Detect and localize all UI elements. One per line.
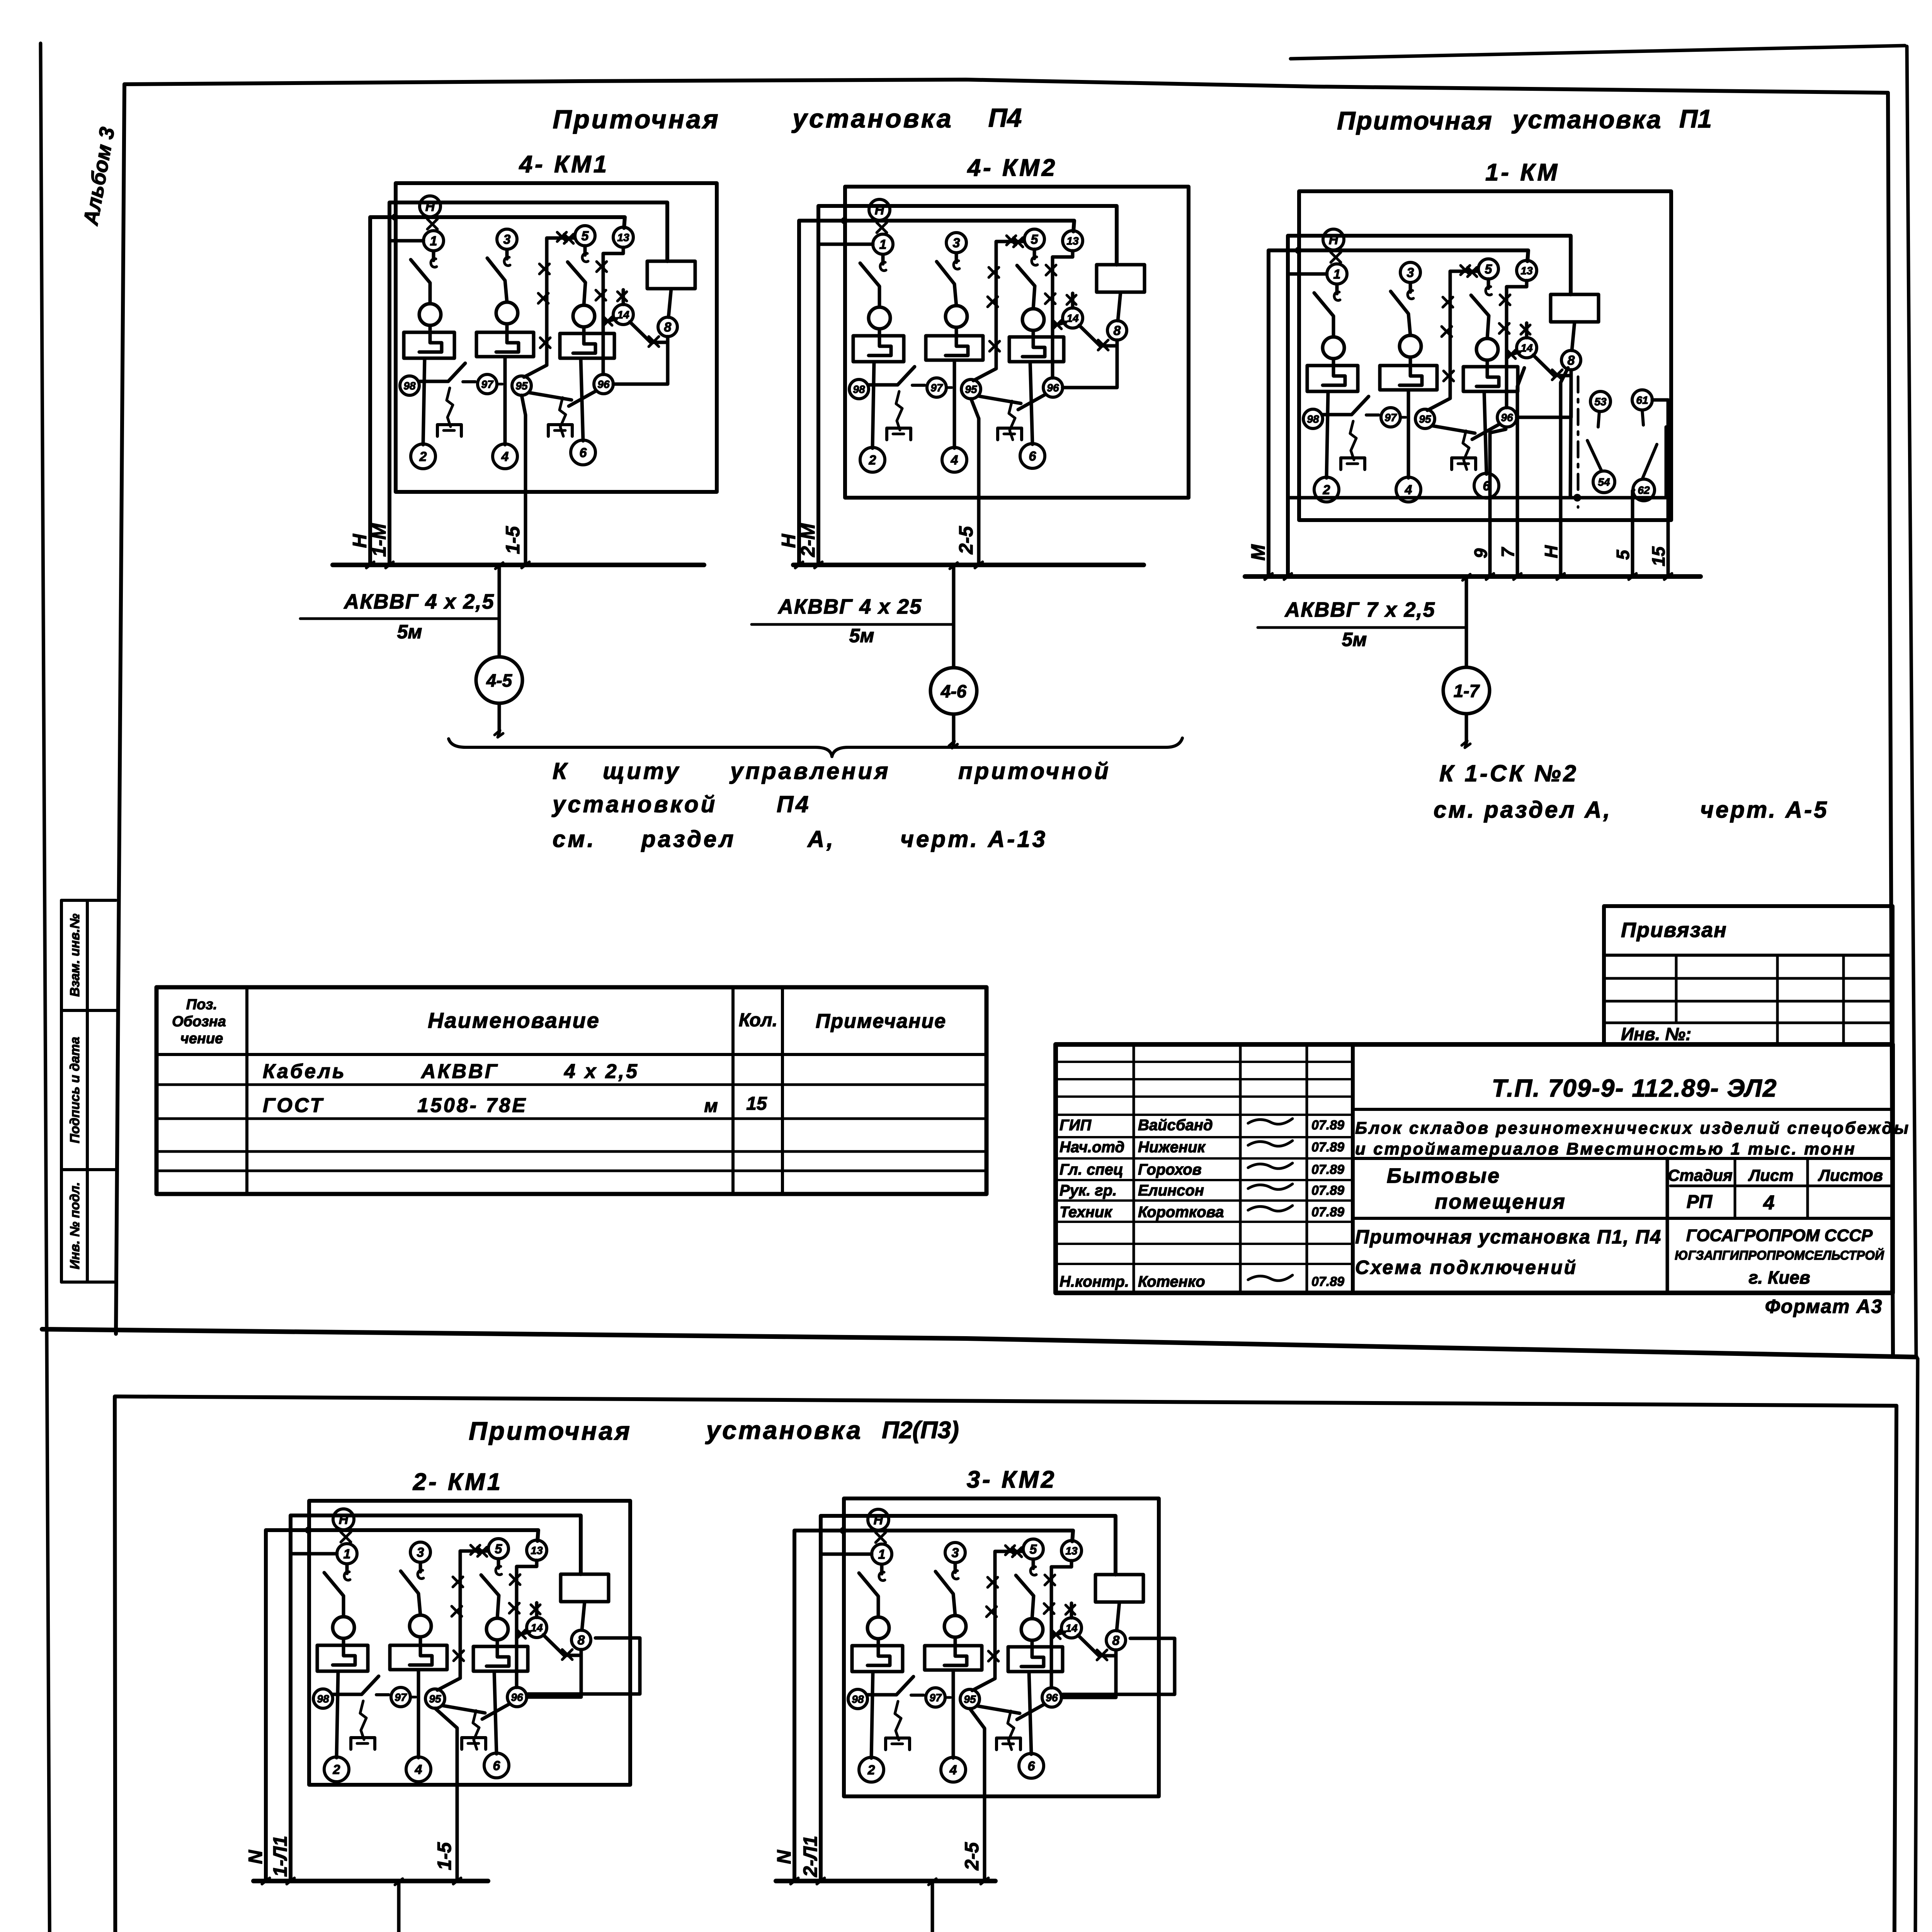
pole 2 wire to thermal 3-КМ2 xyxy=(954,1637,957,1646)
terminal H 1-КМ xyxy=(1323,229,1344,250)
svg-text:5м: 5м xyxy=(849,625,874,646)
svg-text:3: 3 xyxy=(953,236,960,250)
NC blade 98-97 4-КМ1 xyxy=(419,380,448,383)
terminal 97 4-КМ1 xyxy=(478,374,497,394)
pole 2 wire to bottom terminal 4-КМ2 xyxy=(953,360,956,448)
pole 1 contactor circle 2-КМ1 xyxy=(333,1617,354,1638)
junction dot 3-КМ2 xyxy=(840,1527,847,1534)
cross mark under H 3-КМ2 xyxy=(876,1532,886,1543)
1-КМ wire 15 to terminal 61 xyxy=(1652,400,1668,577)
1-КМ terminal 62 xyxy=(1633,479,1655,501)
svg-text:15: 15 xyxy=(746,1094,767,1114)
contactor block 3-КМ2 outline xyxy=(844,1498,1159,1796)
wire 5 branch 3-КМ2 xyxy=(972,1551,1023,1690)
terminal 1 3-КМ2 xyxy=(872,1544,892,1564)
svg-text:14: 14 xyxy=(1520,342,1533,354)
svg-text:Н: Н xyxy=(1541,545,1561,558)
NC blade 98-97 3-КМ2 xyxy=(867,1693,896,1697)
svg-text:4-5: 4-5 xyxy=(486,670,513,690)
svg-text:1: 1 xyxy=(878,1547,886,1562)
thermal trip symbol left 4-КМ2 xyxy=(896,391,902,430)
pole 3 contactor circle 4-КМ1 xyxy=(573,305,595,327)
pole 1 fixed contact 2-КМ1 xyxy=(345,1564,349,1573)
svg-text:Елинсон: Елинсон xyxy=(1138,1182,1204,1199)
svg-text:АКВВГ 4 х 25: АКВВГ 4 х 25 xyxy=(777,595,922,618)
svg-text:К 1-СК №2: К 1-СК №2 xyxy=(1439,760,1578,786)
sheet 1 frame top edge xyxy=(124,80,1888,93)
svg-text:Поз.: Поз. xyxy=(186,997,218,1013)
svg-text:черт. А-13: черт. А-13 xyxy=(900,826,1048,852)
svg-text:А,: А, xyxy=(807,826,835,852)
stub above 14 4-КМ2 xyxy=(1071,293,1075,308)
thermal relay heater 1 4-КМ1 xyxy=(404,332,454,358)
wire coil-feed loop 4-КМ1 xyxy=(389,202,667,565)
pole 3 blade 2-КМ1 xyxy=(481,1575,499,1618)
wire 5 branch 2-КМ1 xyxy=(437,1551,488,1690)
wire 8 to 96 4-КМ1 xyxy=(613,342,668,384)
svg-text:Вайсбанд: Вайсбанд xyxy=(1138,1117,1213,1134)
coil KM 4-КМ1 xyxy=(647,261,695,289)
1-КМ wire Н to terminal 8 xyxy=(1561,368,1568,577)
svg-text:98: 98 xyxy=(403,380,416,392)
svg-text:5: 5 xyxy=(1030,1542,1037,1557)
spec table sheet1 column lines xyxy=(245,987,248,1194)
brace to control panel П4 xyxy=(449,738,1182,757)
terminal H 2-КМ1 xyxy=(333,1509,354,1530)
terminal 96 2-КМ1 xyxy=(507,1687,527,1707)
svg-text:1: 1 xyxy=(344,1547,351,1561)
svg-text:щиту: щиту xyxy=(603,758,681,784)
svg-text:97: 97 xyxy=(930,382,943,394)
pole 1 wire to thermal 4-КМ1 xyxy=(429,325,432,332)
pole 2 blade 1-КМ xyxy=(1391,291,1410,335)
thermal relay heater 1 3-КМ2 xyxy=(852,1646,903,1672)
cross mark under H 2-КМ1 xyxy=(341,1532,351,1542)
svg-text:5: 5 xyxy=(1613,549,1633,560)
svg-text:ГОСТ: ГОСТ xyxy=(263,1094,324,1117)
terminal 5 3-КМ2 xyxy=(1023,1539,1043,1559)
blade 95 thermal 2-КМ1 xyxy=(442,1706,485,1713)
pole 1 blade 4-КМ2 xyxy=(860,263,879,307)
cross mark under H 4-КМ1 xyxy=(427,219,437,229)
terminal 95 4-КМ1 xyxy=(512,376,531,395)
pole 2 wire to bottom terminal 3-КМ2 xyxy=(952,1670,955,1758)
svg-text:2-Л1: 2-Л1 xyxy=(799,1836,821,1878)
svg-text:3: 3 xyxy=(417,1545,424,1560)
paper edge artifact top right xyxy=(1291,46,1905,59)
svg-text:1508- 78Е: 1508- 78Е xyxy=(417,1094,527,1117)
bottom terminal 6 4-КМ1 xyxy=(571,440,595,465)
terminal 96 1-КМ xyxy=(1497,408,1517,427)
right side loop to 96 3-КМ2 xyxy=(1063,1638,1175,1694)
1-КМ blade 53-54 xyxy=(1587,440,1602,471)
aux blade at 14 1-КМ xyxy=(1507,352,1520,355)
pole 2 contactor circle 4-КМ2 xyxy=(946,306,967,327)
terminal 97 4-КМ2 xyxy=(927,378,946,397)
terminal H 4-КМ1 xyxy=(420,196,440,217)
sheet 2 frame top edge xyxy=(115,1396,1896,1406)
pole 3 wire to bottom terminal 1-КМ xyxy=(1484,391,1486,474)
wire below circle 4-5 xyxy=(498,703,501,732)
terminal 14 1-КМ xyxy=(1517,338,1537,358)
pole 1 wire to thermal 4-КМ2 xyxy=(878,329,881,336)
svg-text:8: 8 xyxy=(1114,323,1121,338)
pole 1 wire to bottom terminal 1-КМ xyxy=(1327,391,1328,478)
svg-text:95: 95 xyxy=(964,1693,976,1705)
aux blade at 14 4-КМ2 xyxy=(1053,322,1066,326)
coil to terminal 8 wire 4-КМ1 xyxy=(668,289,671,317)
1-КМ wire 9 to terminal 96 xyxy=(1490,429,1506,577)
thermal trip symbol left 4-КМ1 xyxy=(447,388,453,427)
svg-text:07.89: 07.89 xyxy=(1311,1205,1344,1219)
pole 1 contactor circle 3-КМ2 xyxy=(867,1617,889,1639)
svg-text:2- КМ1: 2- КМ1 xyxy=(413,1469,503,1495)
svg-text:Н.контр.: Н.контр. xyxy=(1060,1273,1129,1290)
svg-text:Ниженик: Ниженик xyxy=(1138,1139,1206,1156)
wire 8 to aux contact 4-КМ2 xyxy=(1100,340,1117,346)
svg-text:14: 14 xyxy=(531,1622,543,1634)
pole 2 fixed contact 2-КМ1 xyxy=(419,1563,422,1572)
svg-text:Приточная установка П1, П4: Приточная установка П1, П4 xyxy=(1355,1226,1662,1248)
blade 96 thermal 4-КМ1 xyxy=(569,391,596,406)
pole 2 wire to thermal 1-КМ xyxy=(1409,357,1412,366)
svg-text:96: 96 xyxy=(511,1691,523,1703)
bottom terminal 6 2-КМ1 xyxy=(484,1753,509,1778)
wire 13 to 96 4-КМ2 xyxy=(1053,251,1073,378)
svg-text:3: 3 xyxy=(503,232,511,247)
coil to terminal 8 wire 2-КМ1 xyxy=(582,1602,585,1630)
thermal relay heater 1 1-КМ xyxy=(1307,366,1358,391)
svg-text:раздел: раздел xyxy=(641,826,736,852)
svg-text:07.89: 07.89 xyxy=(1311,1140,1344,1155)
terminal 96 4-КМ1 xyxy=(594,374,613,394)
1-КМ terminal 61 xyxy=(1632,390,1652,410)
svg-text:6: 6 xyxy=(1029,449,1037,464)
svg-text:Блок складов резинотехнических: Блок складов резинотехнических изделий с… xyxy=(1355,1119,1910,1138)
pole 1 fixed contact 4-КМ1 xyxy=(432,251,435,260)
wire 95 down to cable 4-КМ2 xyxy=(971,399,979,565)
svg-text:2-5: 2-5 xyxy=(961,1842,983,1871)
blade 95 thermal 4-КМ2 xyxy=(978,396,1021,403)
pole 2 wire to thermal 2-КМ1 xyxy=(419,1637,422,1645)
blade 96 thermal 1-КМ xyxy=(1472,424,1499,439)
thermal trip symbol right 3-КМ2 xyxy=(1008,1711,1014,1750)
wire to terminal 1 2-КМ1 xyxy=(291,1552,337,1556)
svg-text:3: 3 xyxy=(1407,265,1414,280)
pole 3 contactor circle 3-КМ2 xyxy=(1021,1619,1043,1640)
svg-text:ЮГЗАПГИПРОПРОМСЕЛЬСТРОЙ: ЮГЗАПГИПРОПРОМСЕЛЬСТРОЙ xyxy=(1675,1248,1884,1262)
wire 5 branch 4-КМ2 xyxy=(973,241,1024,381)
terminal 8 1-КМ xyxy=(1561,350,1581,370)
svg-text:ГОСАГРОПРОМ СССР: ГОСАГРОПРОМ СССР xyxy=(1686,1226,1873,1245)
svg-text:1-5: 1-5 xyxy=(434,1842,455,1870)
svg-text:1: 1 xyxy=(879,237,887,252)
svg-text:Н: Н xyxy=(874,1513,884,1527)
terminal 5 4-КМ2 xyxy=(1024,229,1044,249)
bottom terminal 4 3-КМ2 xyxy=(941,1757,966,1782)
svg-text:Инв. № подл.: Инв. № подл. xyxy=(68,1182,82,1269)
svg-text:Привязан: Привязан xyxy=(1621,918,1727,942)
wire 8 to 96 3-КМ2 xyxy=(1061,1656,1116,1697)
wire 13 to 96 2-КМ1 xyxy=(517,1560,537,1687)
pole 2 blade 2-КМ1 xyxy=(401,1571,420,1615)
svg-text:Н: Н xyxy=(1329,233,1339,247)
terminal 98 3-КМ2 xyxy=(848,1689,867,1709)
aux blade at 14 4-КМ1 xyxy=(603,319,616,322)
pole 2 fixed contact 1-КМ xyxy=(1409,283,1412,292)
svg-text:П4: П4 xyxy=(988,103,1022,133)
svg-text:96: 96 xyxy=(1046,1692,1058,1704)
terminal 5 2-КМ1 xyxy=(488,1539,509,1559)
coil KM 2-КМ1 xyxy=(561,1574,609,1602)
pole 1 wire to thermal 1-КМ xyxy=(1332,359,1335,366)
blade 95 thermal 1-КМ xyxy=(1432,426,1475,433)
wire 13 to 96 1-КМ xyxy=(1507,281,1527,408)
svg-text:Кол.: Кол. xyxy=(739,1010,777,1031)
pole 2 contactor circle 2-КМ1 xyxy=(410,1615,431,1637)
cable drop wire 2-КМ1 xyxy=(397,1881,401,1932)
svg-text:установкой: установкой xyxy=(551,791,717,817)
bottom terminal 6 1-КМ xyxy=(1474,473,1499,498)
svg-text:установка: установка xyxy=(1512,105,1662,134)
pole 2 contactor circle 1-КМ xyxy=(1400,335,1421,357)
pole 1 wire to bottom terminal 2-КМ1 xyxy=(337,1671,338,1758)
pole 3 wire to thermal 2-КМ1 xyxy=(496,1640,499,1646)
pole 2 wire to bottom terminal 2-КМ1 xyxy=(417,1670,420,1758)
bottom terminal 2 1-КМ xyxy=(1314,477,1339,502)
cross mark under H 4-КМ2 xyxy=(877,223,887,233)
terminal 95 1-КМ xyxy=(1415,409,1435,429)
terminal 13 2-КМ1 xyxy=(527,1540,547,1560)
aux blade 14-8 3-КМ2 xyxy=(1078,1635,1099,1656)
svg-text:4- КМ2: 4- КМ2 xyxy=(967,155,1058,181)
wire 8 to 96 2-КМ1 xyxy=(527,1655,581,1697)
terminal 97 1-КМ xyxy=(1381,408,1400,427)
svg-text:97: 97 xyxy=(481,378,494,390)
terminal 14 2-КМ1 xyxy=(527,1617,547,1638)
svg-text:см. раздел А,: см. раздел А, xyxy=(1434,797,1612,823)
pole 3 fixed contact 2-КМ1 xyxy=(497,1559,500,1568)
svg-text:Техник: Техник xyxy=(1060,1204,1112,1221)
thermal relay heater 2 2-КМ1 xyxy=(390,1645,447,1670)
title block sheet1 stadia verticals xyxy=(1734,1158,1736,1218)
pole 1 contactor circle 4-КМ1 xyxy=(419,304,441,325)
svg-text:3: 3 xyxy=(952,1546,959,1560)
svg-text:4-6: 4-6 xyxy=(940,681,967,701)
1-КМ loop junction dot xyxy=(1573,494,1581,502)
svg-text:13: 13 xyxy=(1520,265,1533,277)
svg-text:97: 97 xyxy=(395,1691,407,1703)
svg-text:2: 2 xyxy=(1323,483,1330,497)
cable drop wire 4-КМ2 xyxy=(952,565,956,668)
blade 95 thermal 3-КМ2 xyxy=(977,1706,1020,1713)
bottom terminal 4 4-КМ2 xyxy=(942,447,967,472)
blade 96 thermal 4-КМ2 xyxy=(1018,395,1045,410)
wire 8 to 96 4-КМ2 xyxy=(1063,346,1117,388)
terminal 13 3-КМ2 xyxy=(1061,1541,1082,1561)
pole 2 wire to thermal 4-КМ1 xyxy=(505,324,509,332)
svg-text:2: 2 xyxy=(333,1762,340,1777)
pole 2 blade 4-КМ2 xyxy=(937,262,956,306)
svg-text:96: 96 xyxy=(1501,412,1513,423)
pole 3 wire to thermal 4-КМ2 xyxy=(1032,330,1035,337)
pole 2 wire to bottom terminal 4-КМ1 xyxy=(503,357,507,445)
thermal trip symbol right 2-КМ1 xyxy=(473,1711,479,1749)
terminal 98 4-КМ1 xyxy=(400,376,419,395)
spec table sheet1 row lines xyxy=(156,1083,986,1086)
coil KM 1-КМ xyxy=(1551,294,1599,322)
aux blade 14-8 4-КМ1 xyxy=(630,322,651,342)
svg-text:1: 1 xyxy=(430,234,437,248)
terminal 13 1-КМ xyxy=(1517,260,1537,281)
terminal 3 4-КМ1 xyxy=(497,229,517,249)
terminal 97 2-КМ1 xyxy=(391,1687,410,1707)
pole 1 blade 3-КМ2 xyxy=(859,1573,878,1617)
svg-text:98: 98 xyxy=(852,1693,864,1705)
1-КМ wire 5 to terminal 62 xyxy=(1633,490,1634,577)
wire 8 to aux contact 2-КМ1 xyxy=(564,1650,581,1655)
svg-text:Горохов: Горохов xyxy=(1138,1161,1202,1178)
svg-text:96: 96 xyxy=(1047,382,1059,394)
thermal relay heater 2 1-КМ xyxy=(1380,366,1437,390)
svg-text:1-7: 1-7 xyxy=(1454,681,1480,701)
svg-text:2-5: 2-5 xyxy=(955,526,977,554)
svg-text:53: 53 xyxy=(1594,396,1607,408)
title block sheet1 signature row lines xyxy=(1056,1061,1353,1063)
contactor block 1-КМ outline xyxy=(1299,191,1671,520)
stub above 14 2-КМ1 xyxy=(535,1603,539,1617)
terminal 13 4-КМ1 xyxy=(613,227,633,247)
pole 1 blade 2-КМ1 xyxy=(324,1573,344,1617)
pole 2 fixed contact 3-КМ2 xyxy=(954,1563,957,1572)
terminal 95 3-КМ2 xyxy=(960,1689,980,1709)
svg-text:8: 8 xyxy=(578,1633,585,1648)
svg-text:Наименование: Наименование xyxy=(428,1008,600,1032)
svg-text:1-Л1: 1-Л1 xyxy=(269,1836,291,1877)
svg-text:помещения: помещения xyxy=(1435,1190,1566,1213)
svg-text:Примечание: Примечание xyxy=(816,1010,946,1032)
wire to terminal 1 4-КМ2 xyxy=(818,243,873,246)
terminal 8 4-КМ1 xyxy=(658,317,677,337)
wire 8 to aux contact 4-КМ1 xyxy=(651,337,668,342)
svg-text:54: 54 xyxy=(1598,476,1610,488)
wire 13 to 96 4-КМ1 xyxy=(603,247,623,374)
coil to terminal 8 wire 3-КМ2 xyxy=(1117,1602,1119,1631)
contactor block 4-КМ2 outline xyxy=(845,187,1189,498)
terminal 14 4-КМ1 xyxy=(613,304,633,325)
svg-text:95: 95 xyxy=(1419,413,1431,425)
svg-text:Н: Н xyxy=(339,1512,349,1527)
stub above 14 1-КМ xyxy=(1525,323,1529,338)
svg-text:5м: 5м xyxy=(397,621,422,643)
svg-text:14: 14 xyxy=(1065,1622,1078,1634)
terminal 3 4-КМ2 xyxy=(946,233,966,253)
sheet 1 bottom / page separator line xyxy=(42,1329,1916,1357)
pole 3 blade 1-КМ xyxy=(1471,295,1489,338)
bottom terminal 4 2-КМ1 xyxy=(406,1757,431,1782)
svg-text:5: 5 xyxy=(582,229,589,243)
wire 5 branch 1-КМ xyxy=(1427,271,1478,410)
pole 1 wire to bottom terminal 3-КМ2 xyxy=(871,1672,873,1758)
svg-text:Приточная: Приточная xyxy=(469,1417,632,1445)
svg-text:Бытовые: Бытовые xyxy=(1387,1164,1500,1187)
svg-text:2-М: 2-М xyxy=(797,523,819,557)
bottom terminal 2 4-КМ1 xyxy=(411,444,435,469)
svg-text:3- КМ2: 3- КМ2 xyxy=(967,1466,1057,1493)
terminal 13 4-КМ2 xyxy=(1063,231,1083,251)
thermal relay heater 1 2-КМ1 xyxy=(317,1645,368,1671)
pole 1 fixed contact 4-КМ2 xyxy=(881,255,885,264)
thermal relay heater 2 3-КМ2 xyxy=(925,1646,982,1670)
wire coil-feed loop 3-КМ2 xyxy=(821,1516,1116,1881)
svg-text:13: 13 xyxy=(617,231,629,243)
1-КМ wire 7 to terminal 14 xyxy=(1517,368,1524,577)
svg-text:Нач.отд: Нач.отд xyxy=(1060,1139,1124,1156)
supply bus 1-КМ xyxy=(1245,574,1701,579)
svg-text:Формат А3: Формат А3 xyxy=(1765,1296,1883,1317)
svg-text:Кабель: Кабель xyxy=(263,1060,346,1083)
wire coil-feed loop 4-КМ2 xyxy=(818,206,1117,565)
thermal relay heater 3 2-КМ1 xyxy=(473,1646,528,1671)
coil KM 4-КМ2 xyxy=(1097,265,1145,292)
svg-text:4: 4 xyxy=(951,453,958,468)
svg-text:4: 4 xyxy=(1405,483,1412,497)
terminal 3 1-КМ xyxy=(1400,262,1420,282)
pole 3 fixed contact 4-КМ2 xyxy=(1033,249,1036,259)
pole 2 contactor circle 4-КМ1 xyxy=(496,302,518,324)
pole 2 blade 3-КМ2 xyxy=(935,1571,955,1616)
svg-text:Взам. инв.№: Взам. инв.№ xyxy=(68,913,82,997)
blade 96 thermal 3-КМ2 xyxy=(1017,1704,1044,1719)
pole 2 fixed contact 4-КМ1 xyxy=(505,250,509,259)
wire 8 to 96 1-КМ xyxy=(1517,376,1571,417)
wire N loop 2-КМ1 xyxy=(266,1530,538,1881)
pole 1 contactor circle 4-КМ2 xyxy=(869,307,890,329)
svg-text:95: 95 xyxy=(515,380,528,392)
1-КМ loop right extension xyxy=(1570,427,1666,498)
thermal relay heater 3 4-КМ2 xyxy=(1009,337,1064,362)
svg-text:управления: управления xyxy=(729,758,890,784)
svg-text:Н: Н xyxy=(778,534,799,548)
svg-text:АКВВГ 7 х 2,5: АКВВГ 7 х 2,5 xyxy=(1284,598,1435,621)
svg-text:Н: Н xyxy=(875,203,885,218)
cross mark under H 1-КМ xyxy=(1331,252,1341,262)
svg-text:07.89: 07.89 xyxy=(1311,1274,1344,1289)
wire 8 to aux contact 3-КМ2 xyxy=(1099,1650,1116,1656)
svg-text:1: 1 xyxy=(1333,267,1341,282)
terminal 14 4-КМ2 xyxy=(1063,308,1083,328)
pole 2 wire to thermal 4-КМ2 xyxy=(955,327,958,336)
terminal 98 1-КМ xyxy=(1303,409,1323,429)
svg-text:Приточная: Приточная xyxy=(553,105,720,134)
terminal 96 3-КМ2 xyxy=(1042,1688,1061,1707)
wire below circle 1-7 xyxy=(1465,714,1468,743)
wire N loop 4-КМ1 xyxy=(370,217,625,565)
aux blade at 14 2-КМ1 xyxy=(517,1632,530,1635)
paper edge artifact right sheet2 xyxy=(1912,1359,1918,1932)
svg-text:98: 98 xyxy=(317,1693,329,1705)
sheet 2 frame left edge xyxy=(115,1398,116,1932)
pole 1 fixed contact 3-КМ2 xyxy=(880,1565,884,1574)
junction dot 2-КМ1 xyxy=(305,1527,312,1534)
terminal 98 4-КМ2 xyxy=(849,379,869,399)
Привязан table sheet1 outer xyxy=(1604,906,1893,1044)
1-КМ coil return loop xyxy=(1288,376,1571,498)
svg-text:97: 97 xyxy=(1384,412,1397,423)
contactor block 4-КМ1 outline xyxy=(396,183,717,492)
pole 3 wire to thermal 3-КМ2 xyxy=(1031,1640,1034,1647)
supply bus 4-КМ1 xyxy=(333,563,704,567)
